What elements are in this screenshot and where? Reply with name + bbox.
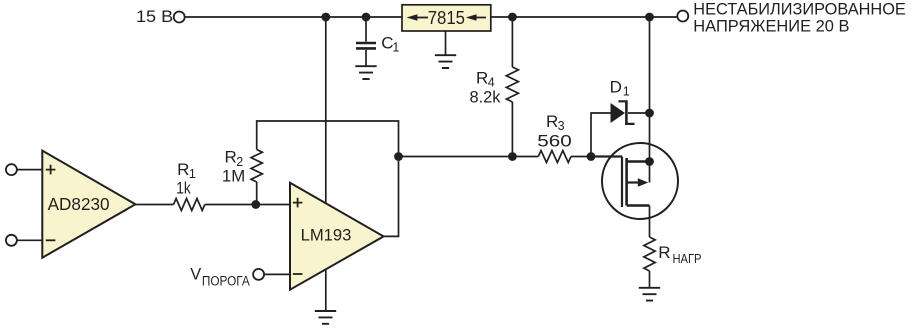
svg-text:1: 1	[392, 41, 399, 55]
svg-text:8.2k: 8.2k	[470, 89, 502, 107]
svg-text:1: 1	[189, 167, 196, 181]
svg-text:3: 3	[558, 119, 565, 133]
svg-text:1k: 1k	[176, 180, 191, 198]
svg-text:D: D	[610, 77, 622, 96]
svg-text:15 В: 15 В	[136, 8, 173, 26]
svg-text:7815: 7815	[428, 8, 465, 28]
svg-text:НАПРЯЖЕНИЕ 20 В: НАПРЯЖЕНИЕ 20 В	[693, 16, 849, 35]
svg-text:НАГР: НАГР	[673, 251, 702, 266]
svg-text:LM193: LM193	[301, 226, 352, 245]
svg-text:V: V	[190, 266, 201, 284]
svg-text:R: R	[476, 68, 488, 87]
svg-text:R: R	[546, 112, 558, 131]
svg-text:2: 2	[236, 155, 243, 169]
svg-text:R: R	[177, 160, 189, 179]
svg-text:R: R	[658, 243, 670, 262]
svg-text:1M: 1M	[222, 168, 245, 186]
svg-text:1: 1	[623, 84, 630, 98]
svg-text:R: R	[225, 148, 237, 167]
svg-text:ПОРОГА: ПОРОГА	[202, 273, 250, 289]
svg-text:AD8230: AD8230	[48, 194, 110, 214]
svg-text:560: 560	[537, 133, 572, 151]
svg-text:4: 4	[488, 75, 495, 89]
